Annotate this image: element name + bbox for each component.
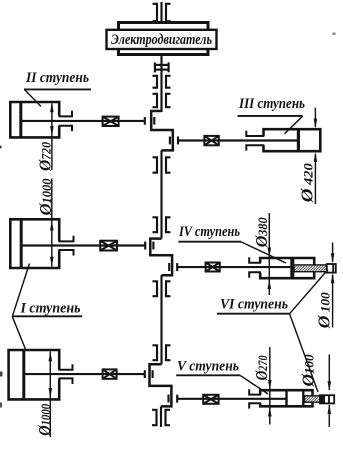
underline V [176,374,240,376]
dimension arrows Ø720 [50,102,54,136]
shaft: crank1 to crank2 [160,150,162,238]
dimension arrows Ø1000 (mid) [50,221,54,267]
page-bleed mark left edge 2 [0,372,3,377]
crank throw 3 (stages I-bottom / V) [150,364,172,406]
piston V (block) [285,390,287,406]
piston rod IV [177,266,291,268]
dimension line Ø100 lower bottom segment [328,405,330,427]
rod end T-bar III [177,137,179,145]
underline IV [178,241,241,243]
crank pin tick I-bottom [152,370,154,378]
cylinder III body [264,129,321,151]
leader VI down [290,314,318,392]
bearing B4 [153,157,171,172]
piston rod I-bottom [25,373,145,375]
crosshead box II [103,117,119,126]
svg-text:II ступень: II ступень [25,70,89,86]
shaft top stub [160,2,162,22]
piston II [19,102,22,137]
crank pin tick IV [168,263,170,271]
piston rod III [178,139,298,141]
dimension line Ø1000 (mid) [51,179,53,267]
dimension arrows Ø420 [314,119,318,162]
dimension line Ø380 top segment [268,213,270,295]
rod end T-bar V [176,395,178,403]
crank throw 1 (stages II / III) [151,111,173,150]
underline II [24,88,91,90]
dimension arrows Ø100 lower [328,381,332,414]
dimension line Ø100 upper top segment [332,243,334,263]
dimension line Ø420 bottom segment [314,154,316,204]
shaft: crank2 to crank3 [160,275,162,364]
dimension line Ø1000 (bottom) [49,352,51,438]
leader I up [13,264,30,316]
piston rod II [21,120,145,122]
piston III [297,129,300,151]
rod end T-bar IV [176,263,178,271]
dimension arrows Ø380 [268,248,272,290]
crank pin tick I-mid [152,242,154,250]
stage VI cylinder upper [327,264,336,273]
bearing B8 [152,410,170,425]
svg-text:ь: ь [0,140,2,152]
svg-text:III ступень: III ступень [238,96,305,112]
motor label box [107,30,217,49]
svg-text:Ø100: Ø100 [299,354,318,388]
gland II (rod guide brackets) [59,111,73,131]
crosshead box III [204,136,218,145]
cylinder I-mid body [10,219,59,268]
svg-text:Ø270: Ø270 [252,355,271,381]
dimension arrows Ø270 [268,380,272,417]
leader V [240,376,268,395]
cylinder II body [10,102,59,137]
underline VI [217,313,290,315]
svg-text:I ступень: I ступень [20,301,81,317]
leader I down [12,316,26,351]
svg-text:Ø 420: Ø 420 [297,163,316,204]
dimension line Ø270 top segment [269,347,271,425]
crank pin tick V [167,395,169,403]
gland III [246,131,264,151]
cylinder IV body [260,258,314,278]
crosshead box IV [206,263,220,272]
shaft bottom end [160,406,162,427]
page-bleed mark top right [333,33,336,36]
leader II [25,90,41,107]
gland I-bottom [59,364,73,384]
dimension line Ø420 top segment [314,108,316,127]
cylinder I-bottom body [9,350,60,399]
piston I-bottom [22,350,25,399]
crosshead box I-bottom [103,369,117,378]
piston I-mid [20,219,23,268]
svg-text:Ø 100: Ø 100 [314,292,333,330]
svg-text:Ø1000: Ø1000 [36,178,55,216]
stage VI rod (hatched) lower [305,396,322,402]
svg-text:Электродвигатель: Электродвигатель [111,32,212,48]
gland V [249,389,261,408]
svg-text:Ø380: Ø380 [252,217,271,248]
crank throw 2 (stages I-mid / IV) [150,239,172,276]
bearing B7 [153,345,171,360]
leader III [285,116,303,134]
page-bleed mark left edge 3 [0,403,2,408]
dimension line Ø720 [51,104,53,171]
svg-text:V ступень: V ступень [177,359,239,375]
dimension line Ø100 lower top segment [328,355,330,391]
svg-text:VI ступень: VI ступень [220,297,288,313]
leader VI up [290,270,328,314]
rod end T-bar I-mid [144,242,146,250]
crosshead box I-mid [100,241,117,251]
crank pin tick III [169,137,171,145]
underline I [12,315,82,317]
bearing B2 [153,76,171,88]
bearing B3 [153,94,171,107]
stage VI rod (hatched) upper [294,265,328,272]
motor body [119,23,209,55]
svg-text:Ø720: Ø720 [35,142,54,172]
bearing B6 [153,281,171,296]
piston rod V [177,398,286,400]
leader IV [241,242,286,263]
bearing B5 [153,217,171,232]
rod end T-bar I-bottom [144,370,146,378]
dimension arrows Ø100 upper [331,253,335,283]
svg-text:Ø1000: Ø1000 [35,403,54,436]
piston rod I-mid [22,244,145,246]
underline III [238,115,303,117]
gland IV [249,257,261,277]
rod end T-bar II [144,117,146,125]
crosshead box V [203,395,218,404]
svg-text:IV ступень: IV ступень [178,224,240,240]
gland I-mid [59,236,74,256]
stage VI cylinder lower [320,395,334,403]
shaft: motor to first crank [160,55,162,112]
crank pin tick II [153,117,155,125]
bearing B1 (top, above motor) [153,4,171,21]
piston IV [290,258,294,278]
dimension arrows Ø1000 (bottom) [49,351,53,398]
coupling below motor [154,62,170,72]
dimension line Ø100 upper bottom segment [332,275,334,328]
cylinder V body [260,390,312,406]
